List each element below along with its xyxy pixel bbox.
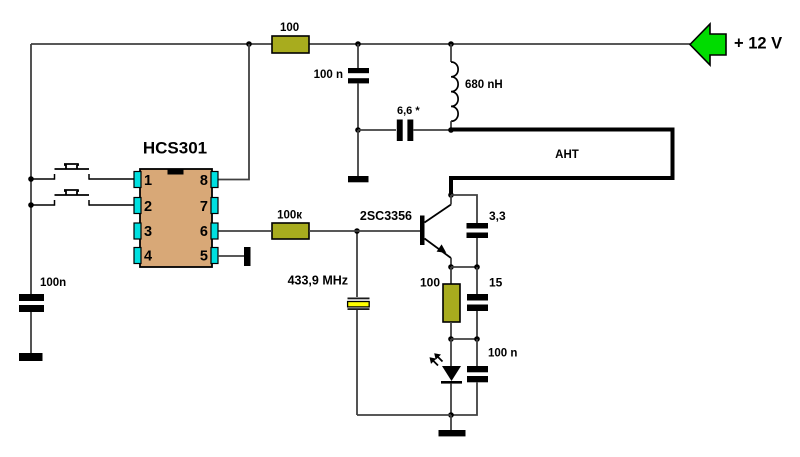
wire C3 bottom to emitter node [476,238,478,267]
svg-text:433,9 MHz: 433,9 MHz [288,274,348,288]
svg-text:АНТ: АНТ [555,149,579,161]
svg-text:100n: 100n [40,277,66,289]
svg-text:2SC3356: 2SC3356 [360,209,412,223]
node junction C1/C2 [355,127,361,133]
svg-text:100 n: 100 n [314,69,343,81]
node junction button1 [28,176,34,182]
node junction emitter [448,264,454,270]
wire bottom node to ground [450,415,452,430]
capacitor C3 3,3 [467,209,507,238]
wire pin5 to terminator [218,255,244,257]
ground (under C1) [348,176,369,182]
+12V supply arrow [690,24,782,65]
wire left vertical rail [30,44,32,294]
resistor R1 100 (top) [272,22,309,53]
node junction bottom [448,412,454,418]
capacitor C2 6,6* [397,105,421,141]
wire emitter node to C4 node [451,266,477,268]
wire node to C3 top [451,195,477,223]
wire C6 bottom to ground [30,312,32,353]
svg-text:+ 12 V: + 12 V [734,35,782,53]
antenna AHT loop [451,130,673,196]
wire C4 node down [476,267,478,294]
svg-text:4: 4 [144,249,152,265]
capacitor C1 100n [314,68,369,83]
wire C1 bottom to node [357,83,359,130]
inductor L1 680 nH [451,62,503,121]
wire node down to ground [357,130,359,176]
svg-text:100: 100 [280,22,299,34]
wire C4 bottom to node [476,311,478,339]
node junction top rail at C1 [355,41,361,47]
svg-text:6: 6 [200,224,208,240]
node junction on top rail to pin 8 [246,41,252,47]
capacitor C5 100 n [467,348,517,383]
switch S1 (push button) [31,164,134,180]
wire down to capacitor C1 [357,44,359,68]
node junction base [354,228,360,234]
svg-text:7: 7 [200,199,208,215]
IC U1 HCS301 [134,139,218,268]
wire from top rail down to pin 8 [218,44,249,180]
wire C2 to antenna node [413,129,451,131]
LED D1 [430,353,463,383]
wire R3 bottom to node [450,322,452,339]
resistor R2 100k [272,210,309,240]
wire C5 bottom to bottom wire [451,382,477,415]
node junction R3/LED [448,336,454,342]
wire bottom horizontal to resonator [357,414,451,416]
wire R2 to base [309,230,420,232]
wire pin6 to R2 [218,230,272,232]
svg-text:3,3: 3,3 [489,209,506,223]
node junction antenna top [448,127,454,133]
wire C5 branch [476,339,478,366]
svg-text:100: 100 [420,275,440,289]
node junction at C4 top [474,264,480,270]
svg-text:8: 8 [200,173,208,189]
capacitor C4 15 [467,275,503,311]
node junction button2 [28,202,34,208]
node junction antenna bottom / collector [448,192,454,198]
svg-text:5: 5 [200,249,208,265]
ground (bottom left) [19,353,43,361]
wire LED to bottom node [450,384,452,415]
wire resonator vertical bottom [356,310,358,415]
capacitor C6 100n (bottom left) [19,277,66,312]
svg-text:HCS301: HCS301 [143,139,207,158]
svg-text:15: 15 [489,275,503,289]
svg-text:100к: 100к [277,210,302,222]
wire node to C2 [358,129,396,131]
ground (bottom center) [439,430,466,436]
svg-text:6,6 *: 6,6 * [397,105,420,117]
node junction top rail at L1 [448,41,454,47]
ground (pin 5 terminator bar) [244,247,251,266]
wire node row [451,338,477,340]
wire top horizontal +12V rail [31,43,690,45]
svg-text:1: 1 [144,173,152,189]
svg-text:680 nH: 680 nH [465,79,503,91]
node junction at C5 top [474,336,480,342]
transistor Q1 2SC3356 [360,195,451,267]
wire emitter node down to R3 [450,267,452,284]
resistor R3 100 (vertical) [420,275,460,322]
svg-text:2: 2 [144,199,152,215]
wire top rail to inductor [450,44,452,62]
svg-text:3: 3 [144,224,152,240]
switch S2 (push button) [31,190,134,206]
wire node to LED [450,339,452,366]
wire inductor to node [450,121,452,130]
svg-text:100 n: 100 n [488,348,517,360]
resonator X1 433,9 MHz [288,274,370,311]
wire resonator top to base node [356,231,358,297]
